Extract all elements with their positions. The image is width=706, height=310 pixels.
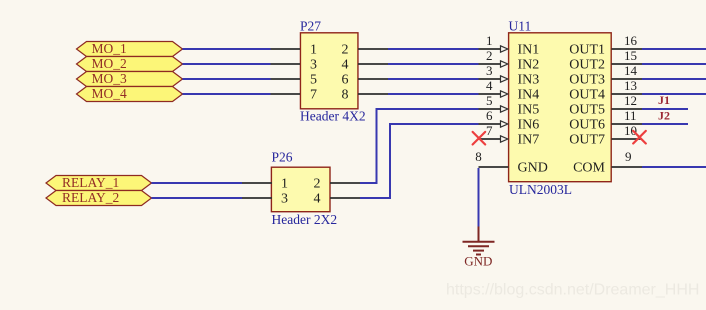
svg-text:U11: U11 xyxy=(509,18,532,33)
wire P27 pin6 to U11 IN3 xyxy=(388,78,479,80)
wire MO_1 to P27 xyxy=(183,48,271,50)
port RELAY_1 xyxy=(46,175,152,190)
svg-text:6: 6 xyxy=(342,72,349,87)
wire P26 pin2 to U11 IN5 xyxy=(360,109,479,183)
wire net J2 xyxy=(642,123,688,125)
svg-text:IN2: IN2 xyxy=(518,57,540,72)
svg-text:3: 3 xyxy=(281,191,288,206)
svg-text:8: 8 xyxy=(342,87,349,102)
svg-text:OUT7: OUT7 xyxy=(569,132,605,147)
port MO_1 xyxy=(77,41,183,56)
wire P27 pin4 to U11 IN2 xyxy=(388,63,479,65)
svg-text:7: 7 xyxy=(310,87,317,102)
port MO_2 xyxy=(77,56,183,71)
P26 pin 3 xyxy=(242,197,272,199)
svg-text:P27: P27 xyxy=(300,19,321,34)
svg-text:COM: COM xyxy=(573,160,605,175)
wire P27 pin2 to U11 IN1 xyxy=(388,48,479,50)
no-connect X on U11 pin 10 xyxy=(633,131,646,144)
svg-text:MO_3: MO_3 xyxy=(92,71,128,86)
svg-text:OUT2: OUT2 xyxy=(569,57,605,72)
ground symbol GND xyxy=(463,227,495,269)
wire MO_4 to P27 xyxy=(183,93,271,95)
U11 pin 9 COM xyxy=(573,149,642,176)
port MO_3 xyxy=(77,71,183,86)
svg-text:13: 13 xyxy=(624,78,637,93)
U11 pin 2 IN2 xyxy=(479,48,540,73)
P27 pin 3 xyxy=(271,63,301,65)
U11 pin 3 IN3 xyxy=(479,63,540,88)
svg-text:4: 4 xyxy=(342,57,349,72)
wire RELAY_1 to P26 pin1 xyxy=(152,182,243,184)
wire RELAY_2 to P26 pin3 xyxy=(152,197,243,199)
svg-text:14: 14 xyxy=(624,63,638,78)
wire MO_2 to P27 xyxy=(183,63,271,65)
svg-text:ULN2003L: ULN2003L xyxy=(509,182,572,197)
U11 pin 16 OUT1 xyxy=(569,33,642,58)
svg-text:MO_1: MO_1 xyxy=(92,41,127,56)
port MO_4 xyxy=(77,86,183,101)
svg-text:RELAY_2: RELAY_2 xyxy=(62,190,119,205)
U11 pin 1 IN1 xyxy=(479,33,540,58)
svg-text:3: 3 xyxy=(310,57,317,72)
P26 pin 1 xyxy=(242,182,272,184)
svg-text:IN3: IN3 xyxy=(518,72,540,87)
svg-text:1: 1 xyxy=(486,33,493,48)
svg-text:8: 8 xyxy=(475,149,482,164)
svg-text:1: 1 xyxy=(310,42,317,57)
svg-text:12: 12 xyxy=(624,93,637,108)
svg-text:10: 10 xyxy=(624,123,637,138)
U11 pin 11 OUT6 xyxy=(569,108,642,133)
P27 pin 4 xyxy=(358,63,388,65)
U11 pin 8 GND xyxy=(475,149,548,176)
svg-text:OUT4: OUT4 xyxy=(569,87,605,102)
svg-text:P26: P26 xyxy=(272,150,293,165)
wire U11 OUT1 to edge xyxy=(642,48,706,50)
svg-text:GND: GND xyxy=(464,253,492,268)
P27 pin 7 xyxy=(271,93,301,95)
svg-text:2: 2 xyxy=(486,48,493,63)
P26 pin 2 xyxy=(330,182,360,184)
svg-text:IN1: IN1 xyxy=(518,42,540,57)
svg-text:IN5: IN5 xyxy=(518,102,540,117)
U11 pin 4 IN4 xyxy=(479,78,540,103)
svg-text:7: 7 xyxy=(486,123,493,138)
U11 pin 13 OUT4 xyxy=(569,78,642,103)
svg-text:J2: J2 xyxy=(658,109,670,123)
wire P27 pin8 to U11 IN4 xyxy=(388,93,479,95)
svg-text:GND: GND xyxy=(518,160,548,175)
svg-text:IN6: IN6 xyxy=(518,117,540,132)
svg-text:Header 4X2: Header 4X2 xyxy=(300,108,366,123)
svg-text:4: 4 xyxy=(486,78,493,93)
svg-text:9: 9 xyxy=(625,149,632,164)
connector P27 xyxy=(300,19,366,124)
no-connect X on U11 pin 7 xyxy=(473,132,486,145)
svg-text:4: 4 xyxy=(314,191,321,206)
U11 pin 7 IN7 xyxy=(479,123,540,148)
connector P26 xyxy=(271,150,337,227)
svg-text:J1: J1 xyxy=(658,93,670,107)
P26 pin 4 xyxy=(330,197,360,199)
svg-text:OUT1: OUT1 xyxy=(569,42,605,57)
wire U11 GND pin to ground symbol xyxy=(478,168,480,228)
wire net J1 xyxy=(642,108,688,110)
svg-text:MO_4: MO_4 xyxy=(92,86,128,101)
svg-text:RELAY_1: RELAY_1 xyxy=(62,175,119,190)
P27 pin 8 xyxy=(358,93,388,95)
svg-text:IN4: IN4 xyxy=(518,87,540,102)
svg-text:1: 1 xyxy=(281,176,288,191)
svg-text:5: 5 xyxy=(486,93,493,108)
svg-text:Header 2X2: Header 2X2 xyxy=(272,212,338,227)
U11 pin 10 OUT7 xyxy=(569,123,642,148)
wire U11 COM to edge xyxy=(642,166,706,168)
svg-text:OUT6: OUT6 xyxy=(569,117,605,132)
U11 pin 5 IN5 xyxy=(479,93,540,118)
svg-text:2: 2 xyxy=(342,42,349,57)
svg-text:16: 16 xyxy=(624,33,638,48)
port RELAY_2 xyxy=(46,190,152,205)
U11 pin 6 IN6 xyxy=(479,108,540,133)
wire U11 OUT4 to edge xyxy=(642,93,706,95)
U11 pin 15 OUT2 xyxy=(569,48,642,73)
P27 pin 6 xyxy=(358,78,388,80)
P27 pin 2 xyxy=(358,48,388,50)
svg-text:6: 6 xyxy=(486,108,493,123)
wire U11 OUT3 to edge xyxy=(642,78,706,80)
svg-text:IN7: IN7 xyxy=(518,132,540,147)
P27 pin 1 xyxy=(271,48,301,50)
svg-text:MO_2: MO_2 xyxy=(92,56,127,71)
svg-text:OUT3: OUT3 xyxy=(569,72,605,87)
svg-text:2: 2 xyxy=(314,176,321,191)
svg-text:OUT5: OUT5 xyxy=(569,102,605,117)
IC U11 ULN2003L body xyxy=(509,18,612,197)
U11 pin 14 OUT3 xyxy=(569,63,642,88)
svg-text:3: 3 xyxy=(486,63,493,78)
svg-text:https://blog.csdn.net/Dreamer_: https://blog.csdn.net/Dreamer_HHH xyxy=(446,282,699,299)
svg-text:11: 11 xyxy=(624,108,637,123)
wire U11 OUT2 to edge xyxy=(642,63,706,65)
svg-text:15: 15 xyxy=(624,48,637,63)
svg-text:5: 5 xyxy=(310,72,317,87)
wire MO_3 to P27 xyxy=(183,78,271,80)
wire P26 pin4 to U11 IN6 xyxy=(360,124,479,198)
P27 pin 5 xyxy=(271,78,301,80)
U11 pin 12 OUT5 xyxy=(569,93,642,118)
